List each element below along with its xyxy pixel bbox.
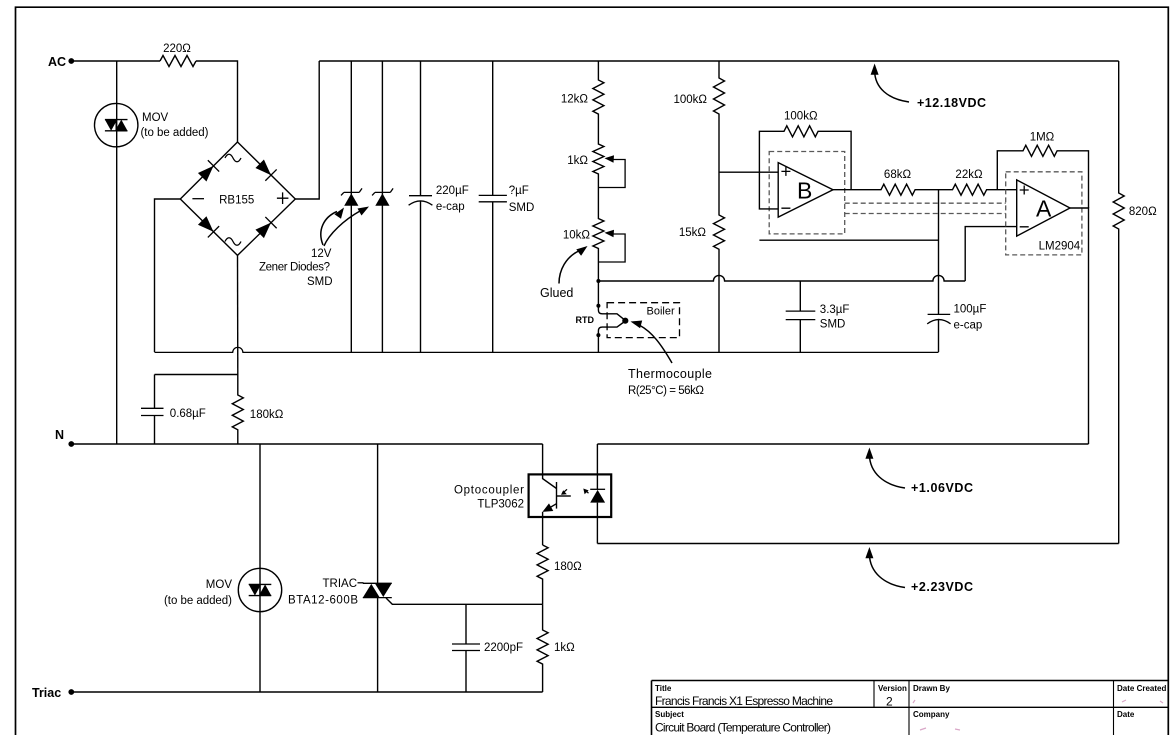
svg-text:Glued: Glued xyxy=(540,286,573,300)
svg-text:Triac: Triac xyxy=(32,686,61,700)
diode bridge bottom-right xyxy=(254,217,277,240)
TRIAC BTA12-600B xyxy=(288,444,392,692)
RTD sensor xyxy=(576,306,629,335)
svg-text:Date Created: Date Created xyxy=(1117,684,1166,693)
svg-text:Optocoupler: Optocoupler xyxy=(454,485,524,497)
svg-text:TLP3062: TLP3062 xyxy=(477,499,524,511)
wire op-amp A output xyxy=(1070,208,1089,444)
LED xyxy=(596,444,598,544)
wire triac gate line xyxy=(386,598,543,604)
wire divider node down to RTD xyxy=(597,281,599,306)
svg-text:SMD: SMD xyxy=(307,276,333,288)
MOV 2 (to be added) xyxy=(164,444,282,692)
wire horizontal to cap branch xyxy=(155,374,238,376)
svg-text:1kΩ: 1kΩ xyxy=(554,642,575,654)
svg-text:AC: AC xyxy=(48,55,66,69)
wire bridge bottom down through hop xyxy=(237,255,239,374)
capacitor ?uF SMD xyxy=(479,61,535,352)
svg-text:e-cap: e-cap xyxy=(954,319,983,331)
wire 220R to bridge top xyxy=(196,61,238,142)
divider chain 100k / 15k xyxy=(673,61,724,352)
zener diode Z2 xyxy=(372,61,393,352)
resistor 180R xyxy=(537,545,582,604)
wire MOV branch upper xyxy=(116,61,118,444)
capacitor 0.68uF xyxy=(141,375,206,445)
pot 1k wiper xyxy=(598,160,625,188)
svg-text:+2.23VDC: +2.23VDC xyxy=(911,580,973,594)
dashed package box A xyxy=(1006,172,1082,255)
svg-text:1MΩ: 1MΩ xyxy=(1030,132,1055,144)
wire op-amp B noninverting input xyxy=(719,171,778,173)
svg-text:Drawn By: Drawn By xyxy=(913,684,950,693)
faint handwriting marks xyxy=(913,700,1163,730)
svg-text:RB155: RB155 xyxy=(219,194,254,206)
svg-text:?µF: ?µF xyxy=(509,185,529,197)
svg-text:SMD: SMD xyxy=(509,202,535,214)
svg-text:+1.06VDC: +1.06VDC xyxy=(911,481,973,495)
svg-text:220µF: 220µF xyxy=(436,185,469,197)
wire top supply bus xyxy=(319,60,1118,62)
diode bridge top-right xyxy=(254,158,277,181)
pot 10k wiper xyxy=(598,234,625,262)
wire RTD to ground bus xyxy=(597,335,599,352)
svg-text:12kΩ: 12kΩ xyxy=(561,94,589,106)
bridge rectifier RB155 xyxy=(180,142,295,255)
ac tilde bottom xyxy=(225,238,241,246)
resistor 1k bottom xyxy=(537,604,575,692)
op-amp U1B xyxy=(778,163,833,218)
svg-text:(to be added): (to be added) xyxy=(141,127,209,139)
svg-text:MOV: MOV xyxy=(142,112,169,124)
plus sign xyxy=(277,192,289,204)
label +2.23VDC with arrow xyxy=(865,547,973,594)
svg-text:e-cap: e-cap xyxy=(436,201,465,213)
wire +1.06 line xyxy=(597,443,1088,445)
minus sign xyxy=(192,198,204,200)
capacitor 3.3uF SMD xyxy=(786,281,850,352)
svg-text:0.68µF: 0.68µF xyxy=(170,408,206,420)
capacitor 100uF e-cap xyxy=(927,304,986,332)
svg-text:Circuit Board (Temperature Con: Circuit Board (Temperature Controller) xyxy=(655,721,831,735)
boiler dashed box xyxy=(607,303,679,338)
svg-text:RTD: RTD xyxy=(576,315,595,325)
MOV (to be added) xyxy=(95,103,209,146)
svg-text:12V: 12V xyxy=(311,248,332,260)
phototransistor xyxy=(543,444,557,489)
svg-text:15kΩ: 15kΩ xyxy=(679,227,707,239)
svg-text:2: 2 xyxy=(886,695,893,709)
wire N line xyxy=(71,443,542,445)
svg-text:Subject: Subject xyxy=(655,710,684,719)
wire bridge plus to top bus xyxy=(295,61,319,199)
svg-text:68kΩ: 68kΩ xyxy=(884,169,912,181)
diode bridge top-left xyxy=(197,160,220,183)
feedback 100k resistor xyxy=(759,111,851,209)
dashed package box B xyxy=(769,152,845,234)
label +1.06VDC with arrow xyxy=(865,448,973,496)
svg-text:SMD: SMD xyxy=(820,319,846,331)
svg-text:Title: Title xyxy=(655,684,672,693)
svg-text:Version: Version xyxy=(878,684,907,693)
svg-text:LM2904: LM2904 xyxy=(1039,241,1081,253)
svg-text:820Ω: 820Ω xyxy=(1129,206,1157,218)
svg-text:BTA12-600B: BTA12-600B xyxy=(288,595,358,607)
svg-text:180kΩ: 180kΩ xyxy=(250,409,284,421)
label +12.18VDC with arrow xyxy=(871,64,986,111)
light arrow from LED xyxy=(585,490,589,493)
svg-text:MOV: MOV xyxy=(206,579,233,591)
svg-text:10kΩ: 10kΩ xyxy=(563,230,591,242)
svg-text:100kΩ: 100kΩ xyxy=(673,94,707,106)
svg-text:N: N xyxy=(55,428,64,442)
resistor 820 xyxy=(1113,61,1157,544)
svg-text:1kΩ: 1kΩ xyxy=(567,155,588,167)
svg-text:Company: Company xyxy=(913,710,950,719)
svg-text:220Ω: 220Ω xyxy=(163,43,191,55)
svg-text:TRIAC: TRIAC xyxy=(323,578,358,590)
title block xyxy=(652,681,1169,735)
wire B feedback tap line xyxy=(759,239,938,241)
ac tilde top xyxy=(225,154,241,162)
wire AC line xyxy=(71,60,160,62)
label thermocouple with arrow xyxy=(628,321,712,398)
wire Triac bus xyxy=(71,691,542,693)
dashed package connection lines xyxy=(845,203,1006,213)
svg-text:Thermocouple: Thermocouple xyxy=(628,367,712,381)
svg-text:(to be added): (to be added) xyxy=(164,595,232,607)
wire junction vertical to 100uF xyxy=(938,190,940,352)
op-amp U1A xyxy=(1017,180,1070,236)
capacitor 220uF e-cap xyxy=(409,61,469,352)
wire +2.23 line xyxy=(597,543,1118,545)
zener diode Z1 xyxy=(341,61,362,352)
wire bridge minus to left then down to ground bus xyxy=(155,199,181,352)
wire up to op-amp A inverting input xyxy=(965,227,1017,281)
diode bridge bottom-left xyxy=(197,215,220,238)
svg-text:100kΩ: 100kΩ xyxy=(784,111,818,123)
label Glued with arrow xyxy=(540,246,588,300)
svg-text:A: A xyxy=(1036,196,1052,222)
arrow to zener 2 xyxy=(324,211,360,246)
svg-text:Boiler: Boiler xyxy=(647,306,675,318)
resistor 220R xyxy=(160,56,196,67)
optocoupler TLP3062 xyxy=(454,444,611,545)
svg-text:+12.18VDC: +12.18VDC xyxy=(917,96,986,110)
svg-text:R(25°C) = 56kΩ: R(25°C) = 56kΩ xyxy=(628,385,704,397)
feedback 1M resistor xyxy=(997,132,1088,209)
svg-text:Francis Francis X1 Espresso Ma: Francis Francis X1 Espresso Machine xyxy=(655,694,833,708)
svg-text:Zener Diodes?: Zener Diodes? xyxy=(259,262,330,274)
resistor 180k xyxy=(232,375,283,445)
svg-text:180Ω: 180Ω xyxy=(554,561,582,573)
wire sense line y=281 with hops xyxy=(598,275,965,281)
capacitor 2200pF xyxy=(452,604,523,692)
wire op-amp B output chain with 68k and 22k xyxy=(833,184,1017,195)
svg-text:Date: Date xyxy=(1117,710,1135,719)
svg-text:B: B xyxy=(797,178,812,204)
wire ground bus with hop at x=238 xyxy=(155,347,939,352)
arrow to zener 1 xyxy=(321,212,337,246)
svg-text:100µF: 100µF xyxy=(954,304,987,316)
svg-text:22kΩ: 22kΩ xyxy=(955,169,983,181)
svg-text:3.3µF: 3.3µF xyxy=(820,304,850,316)
label 12V zener diodes xyxy=(259,207,369,289)
light arrow into transistor xyxy=(563,489,568,493)
svg-text:2200pF: 2200pF xyxy=(484,642,523,654)
divider chain 12k / 1k pot / 10k pot xyxy=(561,61,625,281)
node divider junction xyxy=(596,279,600,283)
